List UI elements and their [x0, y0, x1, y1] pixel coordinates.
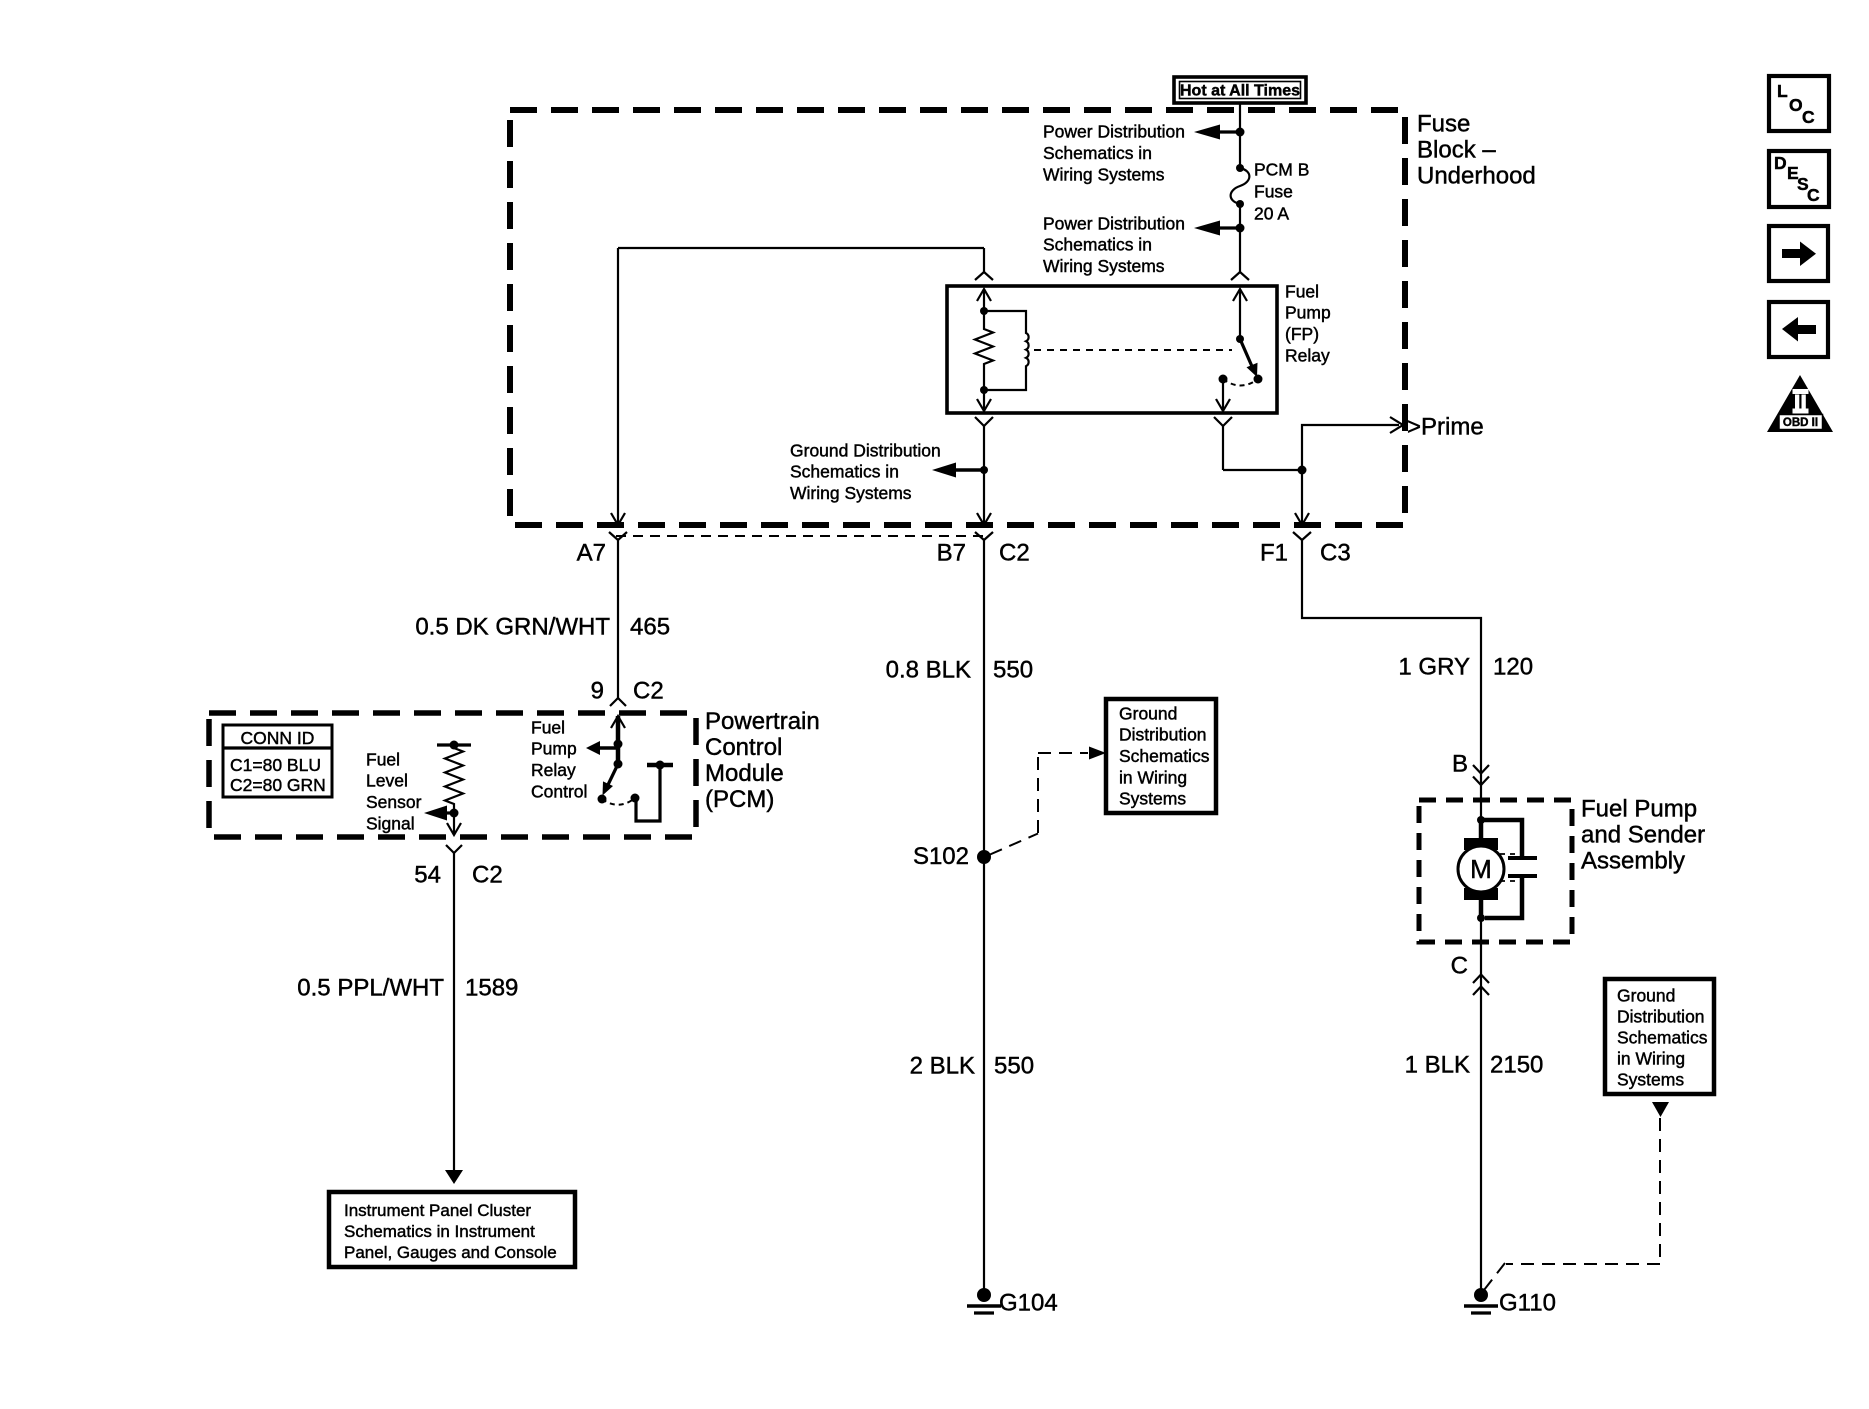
svg-text:L: L	[1777, 81, 1788, 101]
svg-text:Pump: Pump	[531, 739, 577, 759]
svg-text:C3: C3	[1320, 540, 1351, 567]
svg-text:1 BLK: 1 BLK	[1405, 1052, 1470, 1079]
svg-text:1589: 1589	[465, 975, 518, 1002]
svg-text:(FP): (FP)	[1285, 324, 1319, 344]
svg-text:B7: B7	[937, 540, 966, 567]
svg-text:Panel, Gauges and Console: Panel, Gauges and Console	[344, 1243, 557, 1262]
svg-text:Fuel Pump: Fuel Pump	[1581, 796, 1697, 823]
svg-text:Instrument Panel Cluster: Instrument Panel Cluster	[344, 1201, 531, 1220]
svg-text:Fuse: Fuse	[1254, 181, 1293, 201]
svg-text:Ground Distribution: Ground Distribution	[790, 440, 941, 460]
svg-text:Pump: Pump	[1285, 303, 1331, 323]
svg-text:Signal: Signal	[366, 813, 415, 833]
svg-text:C2: C2	[633, 678, 664, 705]
svg-text:Underhood: Underhood	[1417, 163, 1536, 190]
svg-text:S102: S102	[913, 843, 969, 870]
svg-text:(PCM): (PCM)	[705, 786, 774, 813]
svg-text:Ground: Ground	[1617, 985, 1675, 1005]
svg-text:Module: Module	[705, 760, 784, 787]
svg-text:Wiring Systems: Wiring Systems	[1043, 165, 1165, 185]
svg-text:F1: F1	[1260, 540, 1288, 567]
svg-text:>Prime: >Prime	[1407, 414, 1484, 441]
svg-text:2150: 2150	[1490, 1052, 1543, 1079]
svg-text:0.8 BLK: 0.8 BLK	[886, 657, 971, 684]
svg-text:20 A: 20 A	[1254, 203, 1289, 223]
svg-text:M: M	[1470, 854, 1492, 884]
svg-text:Schematics: Schematics	[1617, 1027, 1708, 1047]
svg-text:Assembly: Assembly	[1581, 848, 1685, 875]
svg-text:Systems: Systems	[1617, 1069, 1684, 1089]
svg-text:Control: Control	[705, 734, 782, 761]
svg-text:A7: A7	[577, 540, 606, 567]
svg-text:O: O	[1789, 95, 1803, 115]
svg-text:B: B	[1452, 751, 1468, 778]
svg-text:2 BLK: 2 BLK	[910, 1053, 975, 1080]
svg-text:Power Distribution: Power Distribution	[1043, 213, 1185, 233]
svg-text:G110: G110	[1499, 1290, 1556, 1317]
svg-text:and Sender: and Sender	[1581, 822, 1705, 849]
svg-text:Distribution: Distribution	[1617, 1006, 1705, 1026]
svg-text:in Wiring: in Wiring	[1617, 1048, 1685, 1068]
svg-text:Schematics in Instrument: Schematics in Instrument	[344, 1222, 535, 1241]
svg-text:Schematics: Schematics	[1119, 746, 1210, 766]
svg-text:G104: G104	[999, 1290, 1058, 1317]
svg-text:0.5 DK GRN/WHT: 0.5 DK GRN/WHT	[415, 614, 610, 641]
svg-text:Hot at All Times: Hot at All Times	[1180, 83, 1300, 100]
svg-text:9: 9	[591, 678, 604, 705]
svg-text:Power Distribution: Power Distribution	[1043, 122, 1185, 142]
svg-text:Relay: Relay	[1285, 345, 1330, 365]
svg-text:Distribution: Distribution	[1119, 725, 1207, 745]
svg-text:C2: C2	[472, 862, 503, 889]
svg-text:Wiring Systems: Wiring Systems	[1043, 256, 1165, 276]
svg-text:Fuel: Fuel	[1285, 281, 1319, 301]
svg-text:Systems: Systems	[1119, 789, 1186, 809]
svg-text:Schematics in: Schematics in	[1043, 143, 1152, 163]
svg-text:D: D	[1774, 153, 1787, 173]
svg-text:Schematics in: Schematics in	[1043, 235, 1152, 255]
svg-text:Sensor: Sensor	[366, 792, 422, 812]
svg-text:Control: Control	[531, 781, 587, 801]
svg-text:Wiring Systems: Wiring Systems	[790, 483, 912, 503]
svg-text:Fuel: Fuel	[366, 749, 400, 769]
svg-text:1 GRY: 1 GRY	[1398, 654, 1470, 681]
svg-text:Block –: Block –	[1417, 137, 1496, 164]
svg-text:CONN ID: CONN ID	[241, 728, 315, 748]
svg-text:C: C	[1807, 185, 1820, 205]
svg-text:PCM B: PCM B	[1254, 159, 1309, 179]
svg-text:C1=80 BLU: C1=80 BLU	[230, 755, 321, 775]
svg-text:C2: C2	[999, 540, 1030, 567]
svg-text:0.5 PPL/WHT: 0.5 PPL/WHT	[297, 975, 444, 1002]
svg-text:C2=80 GRN: C2=80 GRN	[230, 775, 326, 795]
svg-text:465: 465	[630, 614, 670, 641]
svg-text:Level: Level	[366, 771, 408, 791]
svg-text:Ground: Ground	[1119, 703, 1177, 723]
svg-text:550: 550	[994, 1053, 1034, 1080]
svg-text:in Wiring: in Wiring	[1119, 767, 1187, 787]
svg-text:54: 54	[414, 862, 441, 889]
svg-text:Fuel: Fuel	[531, 717, 565, 737]
svg-text:550: 550	[993, 657, 1033, 684]
svg-text:OBD II: OBD II	[1783, 417, 1818, 429]
svg-text:Schematics in: Schematics in	[790, 462, 899, 482]
svg-text:120: 120	[1493, 654, 1533, 681]
svg-text:C: C	[1451, 953, 1468, 980]
svg-text:Fuse: Fuse	[1417, 111, 1470, 138]
svg-text:Powertrain: Powertrain	[705, 708, 820, 735]
svg-text:Relay: Relay	[531, 760, 576, 780]
svg-text:C: C	[1802, 107, 1815, 127]
